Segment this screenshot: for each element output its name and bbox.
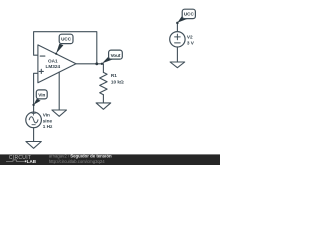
footer logo trace line — [6, 160, 25, 161]
V2 minus symbol — [175, 42, 181, 44]
svg-text:LM324: LM324 — [46, 64, 61, 69]
svg-text:sine: sine — [43, 118, 53, 123]
ground below V2 — [170, 62, 185, 68]
flag UCC at V2 pointer — [177, 15, 187, 22]
footer logo square node — [25, 160, 27, 162]
voltage source V2 circle — [170, 32, 185, 47]
ground below R1 — [96, 103, 111, 109]
flag Vin box — [36, 90, 47, 99]
svg-text:UCC: UCC — [61, 37, 72, 42]
svg-text:1 Hz: 1 Hz — [43, 124, 53, 129]
ground below op-amp V- pin — [52, 110, 67, 116]
svg-text:Vin: Vin — [38, 93, 45, 98]
footer bar — [0, 154, 220, 165]
node anchor dot Vin flag — [32, 104, 34, 106]
wire R1 top lead — [102, 64, 104, 73]
svg-text:LAB: LAB — [27, 159, 37, 164]
op-amp plus input symbol — [39, 69, 43, 73]
voltage source Vin circle — [26, 112, 42, 128]
op-amp minus input symbol — [40, 55, 45, 57]
node anchor dot UCC flag on V2 — [176, 22, 179, 25]
op-amp V- supply pin wire — [58, 72, 60, 110]
wire V2 bottom terminal — [176, 47, 178, 62]
Vin small minus — [32, 124, 35, 126]
wire op-amp output — [76, 63, 103, 65]
svg-text:http://circuitlab.com/cmg3q24: http://circuitlab.com/cmg3q24 — [49, 159, 105, 164]
node anchor dot Vout flag — [101, 63, 103, 65]
flag UCC at op-amp pointer — [56, 44, 63, 54]
op-amp OA1 triangle body — [38, 45, 76, 83]
svg-text:Vin: Vin — [43, 113, 50, 118]
ground below Vin — [26, 142, 41, 149]
flag Vin pointer — [34, 99, 41, 105]
svg-text:10 kΩ: 10 kΩ — [111, 80, 124, 85]
Vin sine wave symbol — [29, 117, 38, 123]
wire non-inverting input down to Vin source — [34, 73, 38, 112]
svg-text:R1: R1 — [111, 73, 117, 78]
svg-text:UCC: UCC — [184, 12, 195, 17]
svg-text:V2: V2 — [187, 35, 193, 40]
flag UCC at V2 box — [182, 9, 195, 18]
wire Vin bottom terminal — [33, 128, 35, 142]
flag UCC at op-amp box — [59, 34, 73, 43]
node anchor dot UCC flag on op-amp V+ — [55, 53, 57, 55]
wire feedback loop from output node to inverting input — [34, 32, 97, 64]
V2 plus symbol — [175, 34, 181, 40]
Vin small plus — [32, 112, 35, 115]
resistor R1 zigzag — [100, 72, 107, 94]
svg-text:OA1: OA1 — [48, 59, 58, 64]
svg-text:3 V: 3 V — [187, 41, 195, 46]
flag Vout box — [109, 50, 123, 59]
flag Vout pointer — [102, 56, 113, 63]
svg-text:Vout: Vout — [111, 53, 121, 58]
wire R1 bottom lead — [102, 95, 104, 103]
node junction dot at op-amp output — [95, 62, 98, 65]
wire V2 top terminal — [176, 23, 178, 31]
